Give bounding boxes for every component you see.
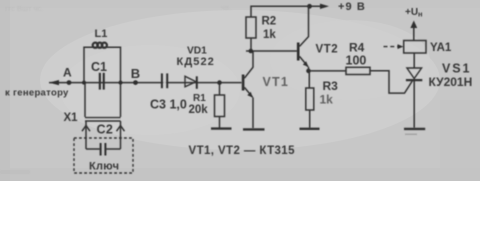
svg-text:+U: +U — [405, 7, 418, 18]
svg-text:R4: R4 — [349, 41, 365, 55]
svg-text:C1: C1 — [91, 60, 107, 74]
svg-text:C2: C2 — [97, 123, 114, 137]
svg-text:VS1: VS1 — [442, 62, 471, 76]
svg-text:гтс Вшт чс.: гтс Вшт чс. — [5, 4, 43, 13]
svg-text:чв.: чв. — [221, 3, 231, 12]
svg-text:R1: R1 — [193, 93, 206, 104]
svg-text:Ключ: Ключ — [89, 160, 119, 172]
svg-text:100: 100 — [346, 54, 367, 68]
svg-text:C3 1,0: C3 1,0 — [150, 98, 187, 112]
svg-text:КУ201Н: КУ201Н — [429, 75, 473, 89]
svg-text:КД522: КД522 — [177, 56, 215, 68]
svg-text:YA1: YA1 — [430, 42, 452, 54]
svg-text:VT2: VT2 — [316, 44, 339, 56]
svg-text:VT1, VT2 — КТ315: VT1, VT2 — КТ315 — [189, 145, 296, 157]
svg-text:1k: 1k — [320, 93, 334, 107]
svg-text:20k: 20k — [189, 104, 209, 116]
svg-text:+9 В: +9 В — [338, 1, 366, 13]
svg-text:к генератору: к генератору — [5, 88, 69, 99]
svg-text:L1: L1 — [95, 28, 108, 40]
svg-text:VD1: VD1 — [187, 46, 207, 57]
svg-text:1k: 1k — [263, 29, 276, 41]
svg-text:н: н — [418, 10, 423, 19]
svg-text:VT1: VT1 — [263, 75, 290, 89]
svg-text:R2: R2 — [262, 16, 277, 28]
svg-text:A: A — [63, 65, 72, 79]
svg-text:В: В — [131, 66, 140, 81]
svg-text:X1: X1 — [64, 112, 79, 124]
svg-text:R3: R3 — [323, 79, 339, 93]
